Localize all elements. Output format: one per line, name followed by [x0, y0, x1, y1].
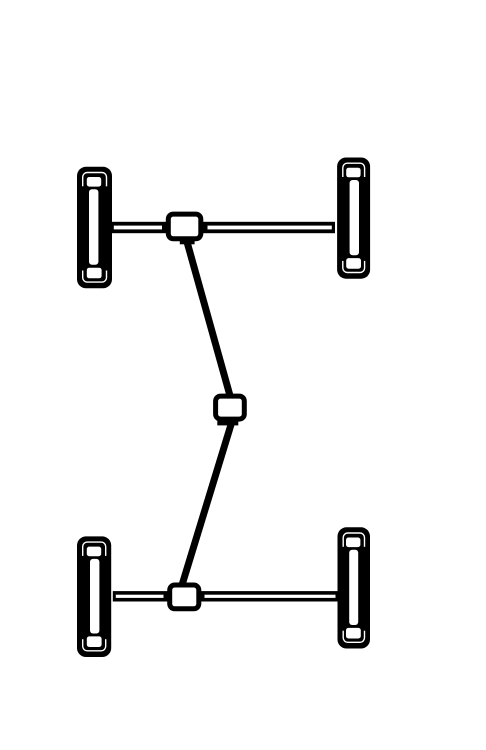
- front axle stripe right: [208, 226, 332, 230]
- front-left wheel: [77, 167, 112, 288]
- front shaft coupling foot: [180, 240, 195, 245]
- front-right wheel: [337, 158, 370, 279]
- front axle tube: [111, 222, 336, 233]
- front propeller shaft: [186, 239, 230, 395]
- center joint box: [216, 396, 245, 419]
- rear-left wheel: [77, 536, 111, 657]
- rear shaft coupling foot: [217, 420, 238, 426]
- rear axle tube: [113, 591, 339, 601]
- rear-right wheel: [338, 527, 371, 648]
- rear differential joint box: [170, 585, 199, 609]
- front axle stripe left: [114, 226, 162, 230]
- rear propeller shaft: [182, 423, 231, 584]
- rear axle stripe left: [116, 595, 164, 598]
- front differential joint box: [168, 214, 201, 239]
- rear axle stripe right: [205, 595, 336, 598]
